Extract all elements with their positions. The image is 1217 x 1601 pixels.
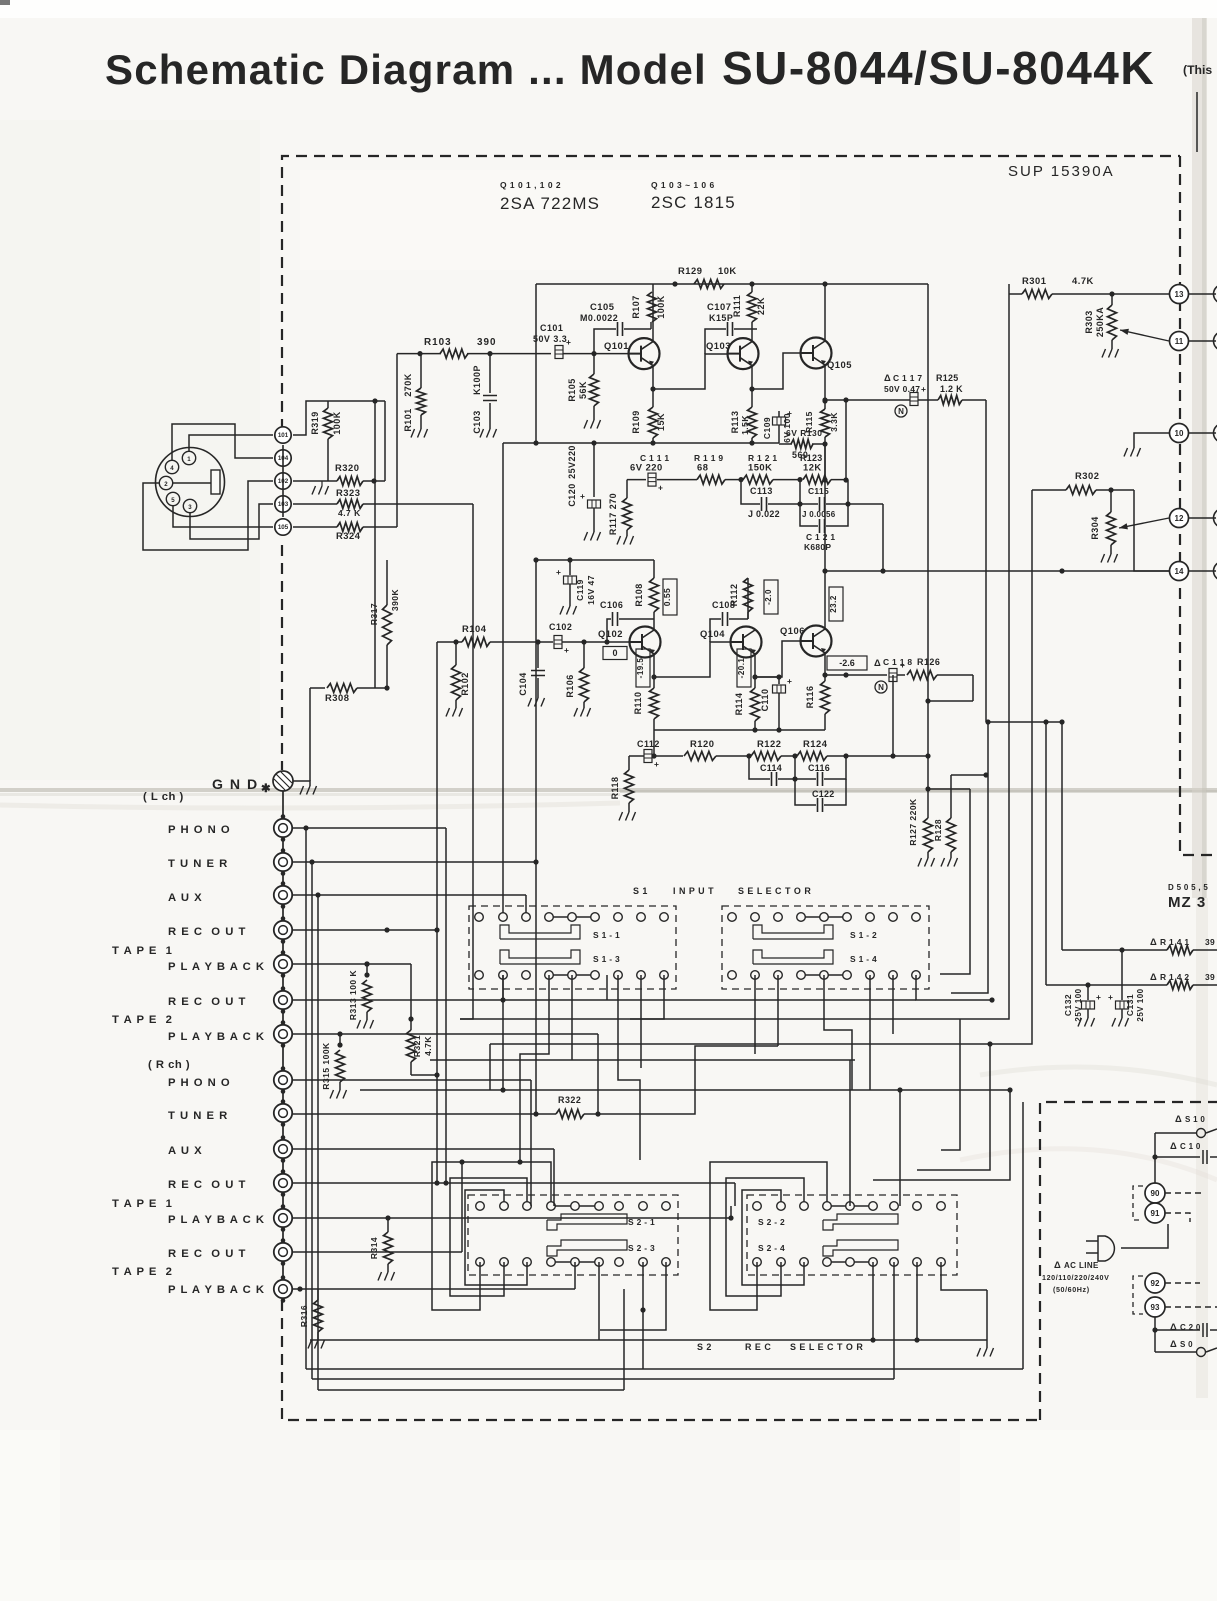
svg-text:101: 101 — [278, 432, 289, 439]
svg-text:R118: R118 — [610, 777, 620, 800]
wire mid vertical 654-730 — [651, 730, 656, 759]
svg-text:Δ: Δ — [1170, 1140, 1177, 1151]
wire Q101 emitter col — [650, 366, 655, 407]
boxed value -2.0 — [764, 580, 778, 614]
svg-text:SU-8044/SU-8044K: SU-8044/SU-8044K — [722, 42, 1155, 94]
svg-text:N: N — [898, 407, 904, 416]
transistor Q102 — [598, 627, 661, 658]
capacitor C102 — [549, 622, 572, 655]
wire Q106 collector trunk — [822, 444, 827, 483]
node line C119 — [533, 557, 654, 562]
svg-text:15K: 15K — [656, 413, 666, 431]
boxed value 23.2 — [829, 587, 843, 621]
wire plug to 91-92 — [1121, 1224, 1168, 1248]
svg-text:K680P: K680P — [804, 542, 831, 552]
wire C118 down — [892, 675, 894, 756]
svg-text:R 1 4 1: R 1 4 1 — [1160, 937, 1189, 947]
capacitor C106 — [600, 600, 654, 642]
svg-text:R127 220K: R127 220K — [908, 798, 918, 846]
resistor R308 — [310, 398, 378, 781]
wire Q106 collector — [824, 444, 826, 629]
label PLAYBACK 1 L — [168, 961, 265, 973]
svg-text:C106: C106 — [600, 600, 623, 610]
svg-text:S E L E C T O R: S E L E C T O R — [790, 1342, 863, 1352]
svg-text:4.7K: 4.7K — [423, 1036, 433, 1056]
resistor R116 — [805, 681, 830, 730]
svg-text:Δ: Δ — [1150, 971, 1157, 982]
svg-text:P H O N O: P H O N O — [168, 824, 231, 836]
wire Q104 emitter — [752, 654, 757, 688]
svg-text:SUP 15390A: SUP 15390A — [1008, 163, 1115, 180]
dashed border main block — [282, 156, 1217, 1420]
svg-text:S 0: S 0 — [1180, 1340, 1193, 1349]
svg-text:D 5 0 5 , 5: D 5 0 5 , 5 — [1168, 883, 1208, 892]
DIN pin 1 — [182, 451, 195, 464]
svg-text:Schematic Diagram ... Model: Schematic Diagram ... Model — [105, 46, 707, 93]
capacitor C117 — [884, 372, 926, 406]
capacitor C2 — [1155, 1323, 1217, 1337]
switch S2-2 box — [747, 1195, 957, 1275]
switch S1-4 contacts bottom — [728, 971, 921, 980]
svg-text:R304: R304 — [1090, 516, 1100, 539]
svg-text:C102: C102 — [549, 622, 572, 632]
terminal 10 — [1170, 424, 1189, 443]
svg-text:C 1 0: C 1 0 — [1180, 1142, 1201, 1151]
resistor R315 — [321, 1034, 347, 1099]
wire stage2 out — [925, 786, 970, 791]
wire S1R pins down — [755, 975, 995, 1090]
potentiometer R303 — [1084, 294, 1119, 358]
svg-text:Δ: Δ — [874, 657, 881, 668]
resistor R117 — [608, 480, 634, 545]
jack AUX L — [274, 881, 292, 909]
junction R122 left — [746, 753, 751, 758]
terminal bus — [282, 445, 284, 517]
resistor R301 — [1022, 275, 1094, 299]
edge circle 12 — [1189, 509, 1217, 528]
switch S1-1 contacts top — [475, 913, 669, 922]
jack bus line — [282, 791, 284, 1300]
capacitor C101 — [533, 323, 594, 359]
svg-text:Q102: Q102 — [598, 628, 623, 639]
resistor R314 — [369, 1215, 395, 1280]
svg-text:R117 270: R117 270 — [608, 493, 618, 535]
svg-text:P L A Y B A C K: P L A Y B A C K — [168, 1031, 265, 1043]
switch S2-3 contacts bottom — [476, 1258, 671, 1267]
svg-text:R E C O U T: R E C O U T — [168, 926, 246, 938]
faint crease diagonals — [0, 803, 1217, 1180]
svg-text:Q105: Q105 — [827, 359, 852, 370]
DIN pin 5 — [166, 492, 179, 505]
wire jack REC OUT1 R — [293, 1183, 735, 1206]
svg-text:R108: R108 — [634, 583, 644, 606]
svg-text:R109: R109 — [631, 410, 641, 433]
svg-text:S 2 - 3: S 2 - 3 — [628, 1243, 655, 1253]
wire 105 line — [293, 526, 397, 528]
terminal 12 — [1170, 509, 1189, 528]
wire S2R wraps — [710, 1162, 827, 1310]
resistor R321 — [407, 964, 434, 1075]
svg-text:C114: C114 — [760, 763, 782, 773]
wire S1L pins down — [500, 975, 664, 1165]
wire Q101 collector col — [651, 284, 653, 341]
capacitor C132 — [1063, 985, 1101, 1027]
jack REC OUT 1 R — [274, 1169, 292, 1197]
svg-text:R128: R128 — [933, 819, 943, 841]
label REC OUT 2 R — [168, 1248, 246, 1260]
svg-text:91: 91 — [1151, 1209, 1160, 1218]
svg-text:R E C O U T: R E C O U T — [168, 1248, 246, 1260]
wire R301 row — [1009, 284, 1169, 297]
svg-text:T A P E 2: T A P E 2 — [112, 1014, 173, 1026]
svg-text:1.5K: 1.5K — [740, 415, 750, 435]
svg-text:13: 13 — [1175, 290, 1184, 299]
svg-text:S 2: S 2 — [697, 1342, 712, 1352]
svg-text:+: + — [580, 491, 585, 501]
svg-text:C 1 1 8: C 1 1 8 — [883, 657, 912, 667]
terminal 102 — [275, 473, 291, 489]
svg-text:R308: R308 — [325, 692, 349, 703]
switch S1-2 contacts top — [728, 913, 921, 922]
transistor Q101 — [604, 338, 660, 369]
svg-text:C120: C120 — [567, 483, 577, 506]
svg-text:25V220: 25V220 — [567, 445, 577, 479]
resistor R127 — [908, 798, 935, 867]
jack REC OUT 2 R — [274, 1238, 292, 1266]
svg-text:Δ: Δ — [884, 372, 891, 383]
R303 wiper — [1120, 329, 1169, 341]
switch S1-2 wiper — [753, 925, 877, 940]
wire pin2 to 102 — [143, 481, 273, 550]
svg-text:2: 2 — [164, 481, 168, 488]
label Q101 102 types — [500, 180, 600, 213]
label Lch — [143, 791, 184, 803]
transistor Q106 — [780, 625, 832, 657]
resistor R107 — [631, 292, 666, 322]
jack REC OUT 2 L — [274, 986, 292, 1014]
resistor R313 — [348, 964, 374, 1029]
wire long horiz 1000 — [607, 999, 916, 1001]
svg-text:R101: R101 — [403, 408, 413, 431]
junction R121 left — [738, 477, 743, 482]
resistor R141 marker — [1150, 936, 1215, 947]
label TAPE 2 R — [112, 1266, 173, 1278]
capacitor C107 — [705, 301, 757, 354]
svg-text:50V 3.3: 50V 3.3 — [533, 334, 567, 344]
svg-text:R 1 4 2: R 1 4 2 — [1160, 972, 1189, 982]
svg-text:S 1 - 1: S 1 - 1 — [593, 930, 620, 940]
svg-text:P L A Y B A C K: P L A Y B A C K — [168, 961, 265, 973]
wire long horiz 1060 — [430, 1059, 855, 1061]
resistor R114 — [734, 688, 760, 730]
terminal 92 — [1145, 1273, 1165, 1293]
resistor R113 — [730, 407, 757, 443]
svg-text:R106: R106 — [565, 674, 575, 697]
dashed wire 91 — [1165, 1213, 1190, 1222]
wire long horiz 1019 — [460, 1018, 960, 1020]
svg-text:R103: R103 — [424, 337, 452, 348]
wire R142 row — [1046, 722, 1217, 988]
wire mesh mid verticals — [850, 1019, 1013, 1206]
jack PHONO R — [274, 1066, 292, 1094]
svg-text:12: 12 — [1175, 514, 1184, 523]
wire Q102 emitter — [651, 654, 656, 688]
wire jack TUNER L — [293, 560, 539, 865]
svg-text:Δ: Δ — [1054, 1259, 1061, 1270]
wire jack PB2 L — [293, 1034, 598, 1115]
label REC OUT 1 L — [168, 926, 246, 938]
wire R302 row — [1032, 487, 1169, 571]
svg-text:R113: R113 — [730, 411, 740, 434]
resistor R104 — [462, 623, 553, 647]
switch S2-4 contacts bottom — [753, 1258, 946, 1267]
svg-text:C110: C110 — [760, 689, 770, 712]
svg-text:10K: 10K — [718, 265, 737, 276]
svg-text:R122: R122 — [757, 738, 781, 749]
capacitor C110 — [755, 674, 792, 730]
wire 102 line — [293, 401, 385, 481]
switch S1-3 contacts bottom — [475, 971, 669, 980]
svg-text:Δ: Δ — [1170, 1338, 1177, 1349]
svg-text:10: 10 — [1175, 429, 1184, 438]
junction rail a — [672, 281, 677, 286]
svg-text:R105: R105 — [567, 378, 577, 401]
wire long horiz 1340 — [310, 1290, 987, 1340]
resistor R323 — [336, 487, 363, 518]
svg-text:P H O N O: P H O N O — [168, 1077, 231, 1089]
junction 102 line — [371, 478, 376, 483]
resistor R317 — [369, 560, 400, 691]
svg-text:Q104: Q104 — [700, 628, 725, 639]
switch S2-2 contacts top — [753, 1202, 946, 1211]
junction base Q101 — [591, 351, 596, 356]
svg-text:90: 90 — [1151, 1189, 1160, 1198]
svg-text:270K: 270K — [403, 373, 413, 396]
resistor R112 — [729, 578, 753, 619]
switch S2-2 wiper — [758, 1214, 898, 1230]
wire jack TUNER R — [293, 862, 548, 1117]
svg-text:C132: C132 — [1063, 994, 1073, 1016]
resistor R108 — [634, 560, 659, 627]
resistor R110 — [633, 688, 659, 730]
label Rch — [148, 1059, 190, 1071]
svg-text:R104: R104 — [462, 623, 487, 634]
label PLAYBACK 2 L — [168, 1031, 265, 1043]
svg-text:✱: ✱ — [261, 783, 270, 795]
edge circle 10 — [1189, 424, 1217, 443]
svg-text:-19.5: -19.5 — [636, 658, 645, 679]
svg-text:C113: C113 — [750, 486, 773, 496]
wire C112 row — [629, 755, 683, 757]
wire mesh top verticals — [940, 294, 1065, 1044]
svg-text:A U X: A U X — [168, 1145, 203, 1157]
resistor R316 — [297, 1286, 324, 1348]
switch S1-4 wiper — [753, 950, 877, 964]
wire jack PB2 R — [293, 1262, 575, 1289]
resistor R142 — [1167, 981, 1193, 990]
resistor R109 — [631, 407, 666, 443]
svg-text:150K: 150K — [748, 462, 772, 473]
switch S1-1 wiper — [500, 925, 620, 940]
svg-text:1.2 K: 1.2 K — [940, 384, 963, 394]
capacitor C116 — [792, 756, 846, 786]
switch contact primary — [1155, 1129, 1217, 1138]
svg-text:T U N E R: T U N E R — [168, 858, 228, 870]
wire Q102 collector — [653, 627, 655, 630]
svg-text:C103: C103 — [472, 410, 482, 433]
wire long horiz 1044 — [490, 1044, 990, 1090]
svg-text:S 1 - 4: S 1 - 4 — [850, 954, 877, 964]
svg-text:S 1 0: S 1 0 — [1185, 1115, 1205, 1124]
dashed wire 92 — [1165, 1282, 1200, 1284]
svg-text:1: 1 — [187, 456, 191, 463]
wire jack AUX R — [293, 1149, 554, 1206]
svg-text:R129: R129 — [678, 265, 702, 276]
boxed value -19.5 — [636, 649, 650, 687]
resistor R125 — [936, 373, 963, 405]
wire 103 line — [293, 504, 473, 1019]
svg-text:Δ: Δ — [1175, 1113, 1182, 1124]
wire misc junctions — [337, 961, 778, 1185]
DIN pin 3 — [183, 499, 196, 512]
svg-text:R120: R120 — [690, 738, 714, 749]
svg-text:R317: R317 — [369, 603, 379, 625]
svg-text:4.7 K: 4.7 K — [338, 508, 361, 518]
label Q103-106 types — [651, 180, 736, 212]
wire R127 col — [893, 284, 931, 818]
svg-text:Q 1 0 1 , 1 0 2: Q 1 0 1 , 1 0 2 — [500, 180, 561, 190]
svg-text:Q103: Q103 — [706, 340, 731, 351]
junction R103 right — [487, 351, 492, 356]
svg-text:25V 100: 25V 100 — [1136, 988, 1145, 1021]
capacitor C118 — [874, 657, 912, 693]
wire emitter row to C118 — [825, 672, 887, 677]
wire jack REC OUT1 L — [293, 927, 440, 932]
resistor R115 — [804, 409, 839, 437]
svg-text:C 1 2 1: C 1 2 1 — [806, 532, 835, 542]
svg-text:Q 1 0 3 ~ 1 0 6: Q 1 0 3 ~ 1 0 6 — [651, 180, 715, 190]
svg-text:105: 105 — [278, 524, 289, 531]
terminal 93 — [1145, 1297, 1165, 1317]
svg-text:T U N E R: T U N E R — [168, 1110, 228, 1122]
dashed wire 90 — [1165, 1192, 1205, 1194]
svg-text:C131: C131 — [1125, 994, 1135, 1016]
junction rail b — [822, 281, 827, 286]
transistor Q103 — [706, 338, 759, 369]
svg-text:R E C O U T: R E C O U T — [168, 1179, 246, 1191]
svg-text:22K: 22K — [756, 297, 766, 315]
wire jack REC OUT2 R — [293, 1159, 465, 1252]
switch S2-3 wiper — [547, 1240, 655, 1256]
label PHONO R — [168, 1077, 231, 1089]
svg-text:250KA: 250KA — [1095, 307, 1105, 337]
svg-text:2SA 722MS: 2SA 722MS — [500, 194, 600, 213]
svg-text:R110: R110 — [633, 692, 643, 715]
svg-text:R315 100K: R315 100K — [321, 1042, 331, 1090]
label C2 — [1170, 1321, 1201, 1332]
GND star — [261, 783, 270, 795]
svg-text:R114: R114 — [734, 693, 744, 716]
AC plug — [1086, 1236, 1114, 1261]
label REC OUT 1 R — [168, 1179, 246, 1191]
dashed bracket 90-91 — [1133, 1186, 1143, 1220]
GND lug ground — [293, 781, 317, 795]
label PLAYBACK 2 R — [168, 1284, 265, 1296]
resistor R320 — [335, 462, 363, 486]
page edge tick — [1196, 92, 1198, 152]
svg-text:100K: 100K — [332, 411, 342, 434]
svg-text:C107: C107 — [707, 301, 731, 312]
svg-text:S E L E C T O R: S E L E C T O R — [738, 886, 811, 896]
label D505 — [1168, 883, 1208, 892]
top supply rail — [536, 284, 928, 443]
svg-text:S 2 - 4: S 2 - 4 — [758, 1243, 785, 1253]
svg-text:+: + — [556, 567, 561, 577]
svg-text:C109: C109 — [762, 417, 772, 439]
capacitor C111 — [627, 453, 697, 493]
svg-text:R319: R319 — [310, 411, 320, 434]
switch S2-1 box — [468, 1195, 678, 1275]
svg-text:0: 0 — [612, 648, 617, 658]
switch contact secondary — [1155, 1348, 1217, 1357]
label AUX L — [168, 892, 203, 904]
label C1 — [1170, 1140, 1201, 1151]
svg-text:R323: R323 — [336, 487, 360, 498]
dashed wire 93 — [1165, 1306, 1217, 1308]
wire base node Q101 — [594, 353, 628, 355]
label AC LINE — [1042, 1259, 1109, 1294]
resistor R119 — [694, 453, 741, 484]
svg-text:92: 92 — [1151, 1279, 1160, 1288]
edge circle 13 — [1189, 285, 1217, 304]
capacitor C121 — [800, 501, 851, 552]
svg-text:100K: 100K — [656, 295, 666, 318]
terminal 90 — [1145, 1183, 1165, 1203]
transistor Q104 — [700, 627, 762, 658]
capacitor C113 — [741, 480, 800, 519]
boxed value 0.55 — [662, 579, 677, 615]
capacitor C122 — [795, 779, 846, 812]
GND label — [212, 776, 259, 792]
terminal 11 — [1170, 332, 1189, 351]
svg-text:Δ: Δ — [1150, 936, 1157, 947]
resistor R102 — [446, 639, 470, 716]
svg-text:C122: C122 — [812, 789, 835, 799]
resistor R105 — [567, 354, 601, 429]
capacitor C109 — [762, 408, 792, 443]
wire 93 down — [1152, 1317, 1157, 1352]
svg-text:P L A Y B A C K: P L A Y B A C K — [168, 1284, 265, 1296]
svg-text:Q106: Q106 — [780, 625, 805, 636]
bias bus — [503, 440, 779, 912]
wire 101 up-right — [293, 401, 385, 435]
svg-text:R111: R111 — [732, 295, 742, 317]
resistor R142 marker — [1150, 971, 1215, 982]
svg-text:MZ 3: MZ 3 — [1168, 894, 1206, 911]
wire pin2 to notch — [173, 482, 212, 484]
label TUNER R — [168, 1110, 228, 1122]
wire R141 row — [1062, 722, 1217, 953]
jack TUNER L — [274, 848, 292, 876]
capacitor C120 — [567, 443, 601, 541]
svg-text:M0.0022: M0.0022 — [580, 313, 618, 323]
svg-text:6V 220: 6V 220 — [630, 462, 663, 473]
capacitor C119 — [556, 560, 596, 615]
svg-text:R302: R302 — [1075, 470, 1099, 481]
wire Q105 collector — [824, 284, 826, 341]
wire R104 row — [437, 642, 462, 1183]
svg-text:( L ch ): ( L ch ) — [143, 791, 184, 803]
